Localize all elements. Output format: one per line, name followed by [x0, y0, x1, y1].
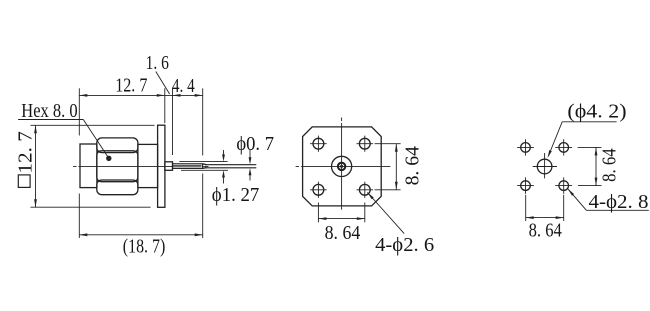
- dia 1.27 dimension: [179, 150, 228, 184]
- pin taper: [203, 164, 207, 169]
- hole bottom-left: [310, 182, 327, 198]
- hole bottom-right: [555, 177, 572, 193]
- extension line pin base right: [172, 88, 174, 155]
- hole top-left: [517, 139, 534, 155]
- cylinder between hex and flange: [138, 144, 158, 187]
- bottom dimension (18.7): [79, 194, 202, 239]
- svg-text:4. 4: 4. 4: [172, 75, 195, 97]
- svg-text:(ϕ4. 2): (ϕ4. 2): [567, 100, 626, 122]
- svg-text:ϕ0. 7: ϕ0. 7: [236, 133, 274, 155]
- hole bottom-left: [517, 177, 534, 193]
- hole top-left: [310, 136, 327, 152]
- bottom 8.64 dimension (right view): [526, 195, 564, 221]
- svg-text:12. 7: 12. 7: [14, 131, 36, 174]
- hex nut middle flat band: [97, 151, 138, 182]
- svg-text:8. 64: 8. 64: [325, 222, 361, 244]
- contact pin (dia 0.7): [205, 165, 256, 168]
- hole bottom-right: [357, 182, 374, 198]
- right 8.64 dimension (right view): [578, 147, 602, 185]
- pin collet section: [173, 164, 203, 169]
- top dimension line (12.7 / 1.6 / 4.4): [79, 72, 202, 239]
- svg-text:(18. 7): (18. 7): [123, 235, 166, 257]
- svg-text:12. 7: 12. 7: [115, 75, 147, 97]
- square symbol of square-12.7: [18, 175, 30, 188]
- center pin cross-section: [338, 163, 345, 170]
- center lines: [296, 118, 391, 210]
- extension line collet end: [202, 88, 204, 155]
- hex nut top flat band: [97, 138, 138, 153]
- flange (side view, thickness 1.6): [158, 125, 165, 207]
- bottom 8.64 dimension (middle view): [318, 203, 364, 223]
- svg-text:4-ϕ2. 8: 4-ϕ2. 8: [589, 191, 649, 213]
- center hole dia 4.2: [537, 159, 552, 174]
- extension line flange right face: [164, 88, 166, 123]
- svg-text:8. 64: 8. 64: [598, 148, 620, 182]
- svg-text:4-ϕ2. 6: 4-ϕ2. 6: [375, 234, 434, 256]
- pin insulator base (dia 1.27): [165, 162, 173, 171]
- svg-text:8. 64: 8. 64: [529, 219, 562, 241]
- body left section: [80, 144, 97, 188]
- center insulator circle: [332, 156, 352, 176]
- svg-text:ϕ1. 27: ϕ1. 27: [212, 184, 259, 206]
- svg-text:1. 6: 1. 6: [146, 52, 169, 74]
- hex nut bottom flat band: [97, 180, 138, 195]
- leader 4-dia2.6: [367, 192, 404, 233]
- dia 0.7 dimension: [249, 150, 251, 181]
- arrowheads of top dimension: [79, 94, 202, 97]
- hole top-right: [555, 139, 572, 155]
- Hex 8.0 leader line with dot: [18, 120, 109, 159]
- svg-text:Hex 8. 0: Hex 8. 0: [21, 100, 77, 122]
- extension line body-left: [78, 88, 80, 135]
- centerline (horizontal axis of connector): [73, 165, 209, 167]
- flange octagon outline: [303, 127, 382, 206]
- left vertical dimension (square 12.7): [31, 125, 155, 207]
- hole top-right: [357, 136, 374, 152]
- right 8.64 dimension (middle view): [375, 144, 401, 190]
- svg-text:8. 64: 8. 64: [402, 146, 424, 185]
- leader 4-dia2.8 with underline: [568, 189, 649, 211]
- leader for 1.6: [156, 72, 170, 95]
- leader (dia4.2) with underline: [549, 122, 617, 156]
